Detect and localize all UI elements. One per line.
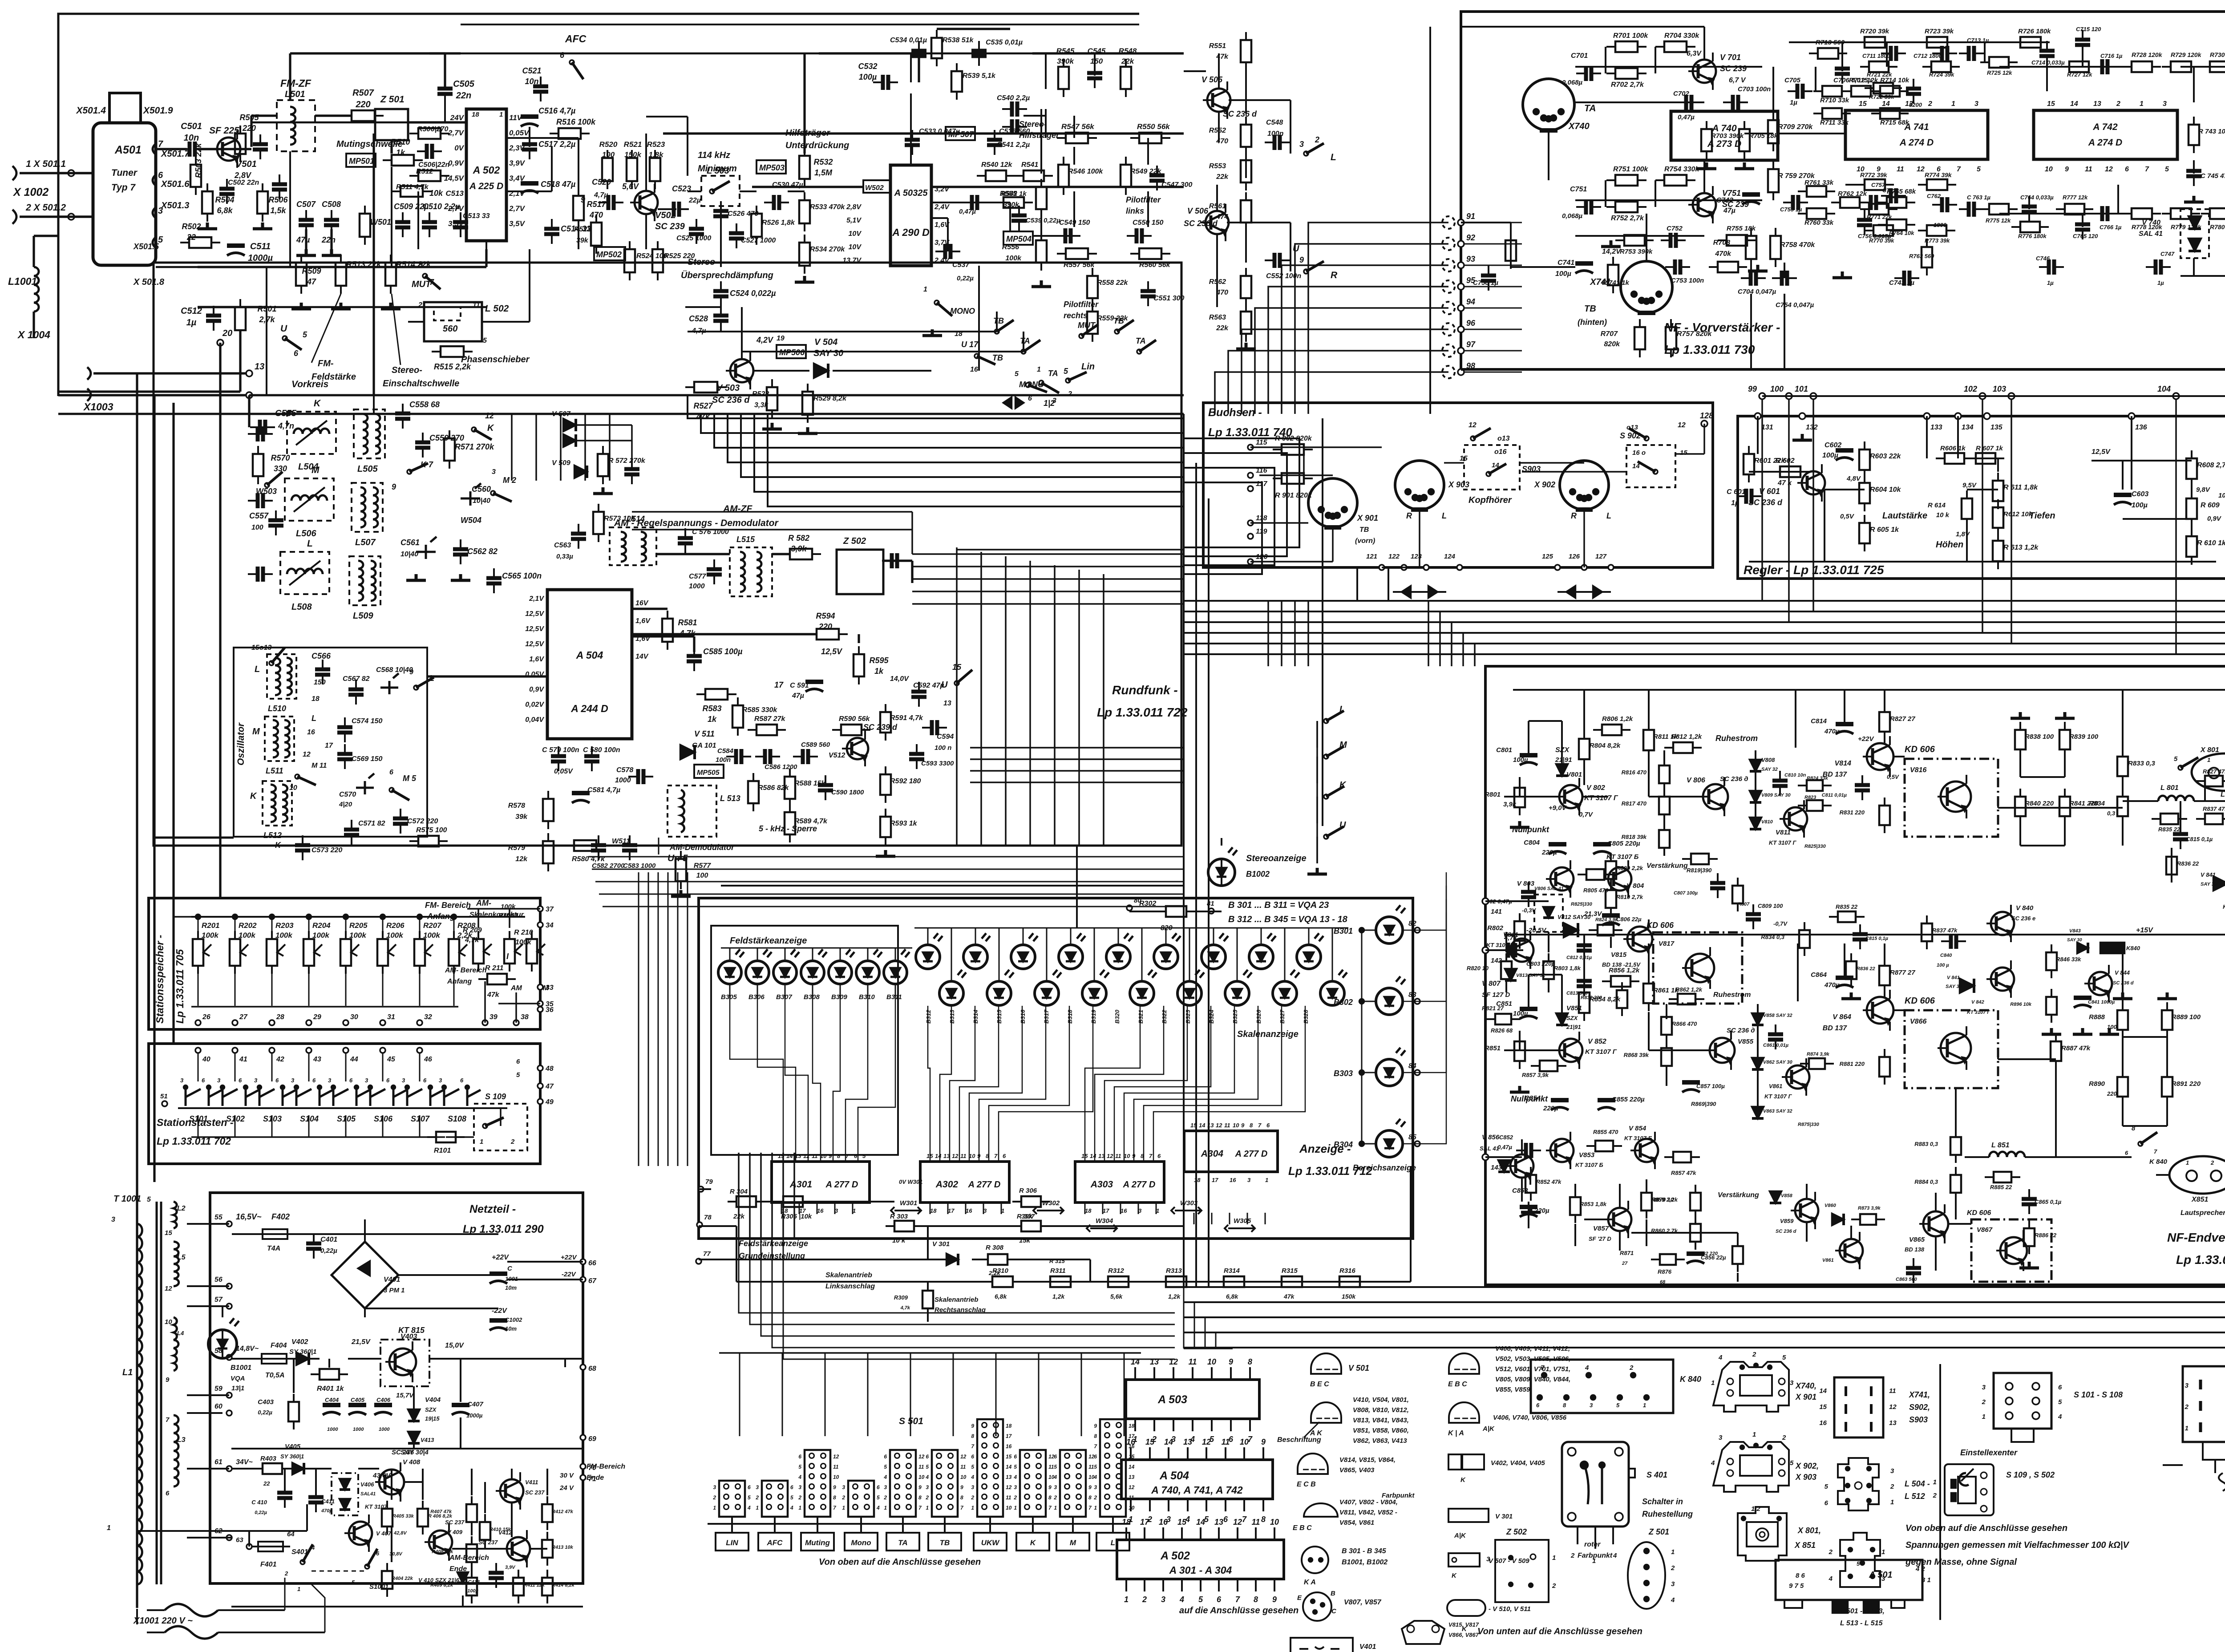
svg-text:3: 3 <box>926 1484 929 1490</box>
DIN connector X741 <box>1621 261 1672 313</box>
svg-text:2: 2 <box>1570 1552 1575 1559</box>
switch TB <box>995 329 999 334</box>
capacitor C815b <box>1853 934 1868 939</box>
svg-text:C765 120: C765 120 <box>2073 233 2098 239</box>
svg-text:1: 1 <box>842 1505 845 1511</box>
wire <box>289 53 291 100</box>
svg-text:C525 1000: C525 1000 <box>676 235 711 242</box>
tuner pin <box>153 237 156 248</box>
terminal 58 <box>227 1355 232 1360</box>
resistor R836b <box>1846 961 1857 979</box>
resistor R775 <box>1989 204 2009 215</box>
svg-text:L1001: L1001 <box>8 275 37 287</box>
svg-text:29: 29 <box>313 1013 321 1021</box>
svg-text:7: 7 <box>1242 1515 1247 1524</box>
fuse F404 <box>262 1354 287 1364</box>
terminal 122 <box>1401 565 1407 570</box>
svg-text:67: 67 <box>588 1277 597 1285</box>
resistor R588 <box>785 777 795 799</box>
svg-text:Farbpunkt: Farbpunkt <box>1382 1492 1415 1499</box>
svg-text:150k: 150k <box>1342 1293 1356 1300</box>
wire <box>883 559 912 562</box>
svg-text:AM-Demodulator: AM-Demodulator <box>669 843 735 852</box>
capacitor C863 <box>1906 1268 1921 1273</box>
svg-text:V855, V859,: V855, V859, <box>1495 1386 1532 1393</box>
resistor R760 <box>1807 208 1826 219</box>
capacitor C815 <box>2173 834 2188 839</box>
svg-text:9: 9 <box>918 1484 922 1490</box>
capacitor C762 <box>1942 197 1947 212</box>
svg-text:11: 11 <box>1048 1464 1054 1470</box>
resistor R524 <box>624 249 635 272</box>
svg-text:SZX: SZX <box>1566 1015 1578 1021</box>
svg-text:0,22µ: 0,22µ <box>255 1510 267 1515</box>
svg-text:118: 118 <box>1256 514 1267 522</box>
svg-text:V857: V857 <box>1593 1225 1609 1232</box>
svg-text:K840: K840 <box>2126 945 2140 952</box>
wire <box>153 395 155 1182</box>
terminal 60 <box>227 1410 232 1416</box>
svg-text:V 740: V 740 <box>2142 219 2160 227</box>
svg-text:1000: 1000 <box>353 1427 364 1432</box>
capacitor C593 <box>909 754 924 759</box>
wire netzteil bottom <box>231 1606 583 1607</box>
svg-text:V 301: V 301 <box>932 1240 950 1248</box>
svg-text:Anfang: Anfang <box>447 978 472 985</box>
resistor R506 <box>257 191 268 214</box>
svg-text:9: 9 <box>833 1484 836 1490</box>
capacitor C411 <box>308 1497 324 1502</box>
svg-text:0,7V: 0,7V <box>1579 811 1594 818</box>
resistor R762 <box>1840 197 1860 208</box>
transistor V853 <box>1550 1139 1574 1162</box>
svg-text:Lautsprecher: Lautsprecher <box>2221 791 2225 798</box>
svg-text:C560: C560 <box>472 485 491 494</box>
ground <box>2055 712 2075 718</box>
inductor L501 winding <box>290 107 295 145</box>
svg-text:1µ: 1µ <box>1790 99 1797 106</box>
terminal 103 <box>2008 393 2015 399</box>
svg-text:1: 1 <box>884 1505 887 1511</box>
svg-text:92: 92 <box>1466 233 1475 242</box>
test point MP503 <box>756 160 786 174</box>
ground <box>291 303 311 309</box>
capacitor C801 <box>1520 753 1537 757</box>
DIN connector X902 <box>1560 461 1609 510</box>
resistor R873 <box>1860 1214 1876 1225</box>
svg-text:11: 11 <box>918 1464 924 1470</box>
resistor R837 <box>2205 814 2223 824</box>
resistor R725 <box>1989 57 2009 68</box>
svg-text:V 803: V 803 <box>1517 880 1535 887</box>
svg-text:W304: W304 <box>1096 1217 1113 1225</box>
capacitor C840b <box>1951 934 1956 949</box>
svg-text:V814, V815, V864,: V814, V815, V864, <box>1339 1456 1396 1464</box>
svg-text:L: L <box>311 714 316 723</box>
wire bus <box>714 414 1184 448</box>
resistor R501 <box>235 307 246 330</box>
svg-text:1: 1 <box>713 1505 716 1511</box>
svg-text:-22V: -22V <box>562 1271 577 1278</box>
wire bus <box>701 414 1184 433</box>
capacitor C526 <box>713 211 728 216</box>
svg-text:1: 1 <box>923 286 927 293</box>
svg-text:SC 236 д: SC 236 д <box>1720 775 1748 783</box>
switch S903 box <box>1464 445 1520 490</box>
svg-text:Ende: Ende <box>449 1565 467 1573</box>
svg-text:Linksanschlag: Linksanschlag <box>825 1283 875 1290</box>
capacitor C757 <box>1871 195 1876 210</box>
resistor R752 <box>1615 202 1638 212</box>
svg-text:SC 237: SC 237 <box>445 1519 465 1526</box>
svg-text:R761 33k: R761 33k <box>1804 179 1834 186</box>
svg-text:4,2V: 4,2V <box>756 336 774 344</box>
svg-text:1,8V: 1,8V <box>1956 530 1970 538</box>
terminal mark <box>1442 302 1455 314</box>
svg-text:R753 390k: R753 390k <box>1620 248 1653 255</box>
svg-text:124: 124 <box>1444 553 1456 560</box>
svg-text:11: 11 <box>1889 1387 1896 1395</box>
svg-text:R896 10k: R896 10k <box>2010 1002 2032 1007</box>
svg-text:3: 3 <box>180 1077 184 1084</box>
resistor R561 <box>1241 200 1251 223</box>
svg-text:R529 8,2k: R529 8,2k <box>813 395 847 402</box>
svg-text:L501: L501 <box>285 89 305 99</box>
svg-text:V865: V865 <box>1909 1236 1925 1243</box>
svg-text:R857 47k: R857 47k <box>1671 1170 1696 1176</box>
wire <box>198 148 218 150</box>
switch osc M <box>389 788 394 792</box>
svg-text:Feldstärkeanzeige: Feldstärkeanzeige <box>739 1239 808 1248</box>
resistor R542 1k <box>1003 197 1024 208</box>
capacitor C805 <box>1593 842 1611 846</box>
wire <box>390 140 392 154</box>
resistor R610 <box>2186 536 2197 557</box>
resistor R563 <box>1241 312 1251 334</box>
svg-text:Ruhestellung: Ruhestellung <box>1642 1510 1693 1518</box>
svg-text:R758 470k: R758 470k <box>1780 241 1815 249</box>
svg-text:2: 2 <box>883 1494 887 1501</box>
svg-text:V402: V402 <box>291 1338 308 1346</box>
resistor R706 <box>1505 240 1516 261</box>
svg-text:Lautstärke: Lautstärke <box>1882 511 1927 521</box>
resistor R521 <box>627 158 637 181</box>
svg-text:4: 4 <box>1711 1459 1715 1467</box>
svg-text:R515 2,2k: R515 2,2k <box>434 362 471 371</box>
wire long bus <box>1184 600 2225 602</box>
svg-text:17: 17 <box>1212 1177 1218 1183</box>
resistor R776 <box>2020 222 2040 232</box>
capacitor C572 <box>393 818 408 824</box>
svg-text:100µ: 100µ <box>2132 502 2148 509</box>
pot 560 box <box>434 307 461 320</box>
resistor R710 <box>1822 86 1842 97</box>
svg-text:104: 104 <box>2157 385 2171 393</box>
svg-text:100k: 100k <box>386 931 404 939</box>
svg-text:L 503: L 503 <box>707 166 729 176</box>
svg-text:R309: R309 <box>894 1294 908 1301</box>
svg-text:1µ: 1µ <box>1731 499 1739 507</box>
svg-text:C806 22µ: C806 22µ <box>1616 916 1642 923</box>
svg-text:R207: R207 <box>423 921 442 930</box>
switch TA <box>1021 349 1026 354</box>
svg-text:V 804: V 804 <box>1626 882 1644 890</box>
capacitor C586 <box>765 749 770 764</box>
svg-text:R721 22k: R721 22k <box>1867 71 1892 78</box>
svg-text:6: 6 <box>1003 1153 1006 1159</box>
svg-text:TB: TB <box>1113 316 1124 325</box>
resistor R703 <box>1701 129 1712 151</box>
svg-text:1: 1 <box>1752 1431 1756 1438</box>
capacitor C56x <box>624 469 639 474</box>
wire <box>444 53 446 87</box>
svg-text:11: 11 <box>812 1153 818 1159</box>
svg-text:3 PM 1: 3 PM 1 <box>384 1287 405 1294</box>
svg-text:2: 2 <box>284 1570 288 1577</box>
svg-text:R870 10: R870 10 <box>1652 1196 1674 1203</box>
svg-text:5: 5 <box>303 330 307 339</box>
svg-text:FM- Bereich: FM- Bereich <box>425 901 471 910</box>
svg-text:R723 39k: R723 39k <box>1925 28 1954 35</box>
svg-text:C516 4,7µ: C516 4,7µ <box>538 106 576 115</box>
svg-text:L 851: L 851 <box>1991 1142 2010 1149</box>
terminal 67 <box>580 1277 586 1282</box>
svg-text:R729 120k: R729 120k <box>2171 51 2202 58</box>
switch S107 <box>407 1088 444 1106</box>
svg-text:100n: 100n <box>716 756 731 764</box>
svg-text:A 225 D: A 225 D <box>469 181 503 191</box>
wire <box>198 917 199 939</box>
resistor R765 <box>1887 197 1906 208</box>
svg-text:C577: C577 <box>689 573 706 580</box>
capacitor C573 <box>295 845 310 850</box>
svg-text:+22V: +22V <box>561 1254 577 1261</box>
svg-text:1: 1 <box>1037 366 1041 373</box>
svg-text:1: 1 <box>480 1138 483 1146</box>
svg-text:96: 96 <box>1466 319 1476 328</box>
svg-text:2: 2 <box>1782 1434 1786 1441</box>
ground <box>922 329 942 336</box>
resistor R862 <box>1678 994 1695 1004</box>
svg-text:1: 1 <box>1982 1413 1986 1421</box>
svg-text:V861: V861 <box>1822 1258 1834 1263</box>
capacitor C535 <box>971 51 987 56</box>
wire netzteil mid <box>231 1448 583 1450</box>
svg-text:R312: R312 <box>1108 1267 1125 1275</box>
capacitor C413 <box>489 1573 504 1578</box>
svg-text:12: 12 <box>1678 421 1686 429</box>
phase shifter L502 box <box>424 302 482 341</box>
svg-text:3: 3 <box>1590 1402 1593 1409</box>
svg-text:34V~: 34V~ <box>236 1458 253 1466</box>
svg-text:2: 2 <box>925 1494 929 1501</box>
svg-text:95: 95 <box>1466 276 1476 285</box>
svg-text:5,6k: 5,6k <box>1110 1293 1123 1300</box>
svg-text:R510: R510 <box>391 138 410 146</box>
svg-text:B305: B305 <box>721 993 737 1001</box>
svg-text:R201: R201 <box>202 921 220 930</box>
DIN connector X740 <box>1523 79 1574 130</box>
capacitor C592 <box>911 692 926 697</box>
resistor R728 <box>2132 61 2152 72</box>
inductor L510 <box>275 658 280 695</box>
svg-text:4,7k: 4,7k <box>900 1305 910 1311</box>
svg-text:R: R <box>1331 270 1338 280</box>
svg-text:C811 0,01µ: C811 0,01µ <box>1822 793 1847 798</box>
svg-text:101: 101 <box>1795 385 1808 393</box>
svg-text:100 n: 100 n <box>934 744 951 752</box>
svg-text:1k: 1k <box>708 715 717 724</box>
switch S902a <box>1644 436 1649 441</box>
svg-text:R522: R522 <box>574 226 591 233</box>
svg-text:C590 1800: C590 1800 <box>831 789 864 796</box>
diode V806b SAL41 <box>1543 907 1554 918</box>
svg-text:V866: V866 <box>1910 1018 1926 1025</box>
svg-text:L 501 - L 503,: L 501 - L 503, <box>1840 1607 1885 1615</box>
resistor R826 <box>1495 1014 1511 1024</box>
svg-text:R806 1,2k: R806 1,2k <box>1602 715 1633 723</box>
svg-text:47k: 47k <box>487 991 500 999</box>
svg-text:R523: R523 <box>647 140 665 149</box>
terminal 31 <box>380 1020 385 1025</box>
svg-text:3: 3 <box>217 1077 221 1084</box>
svg-text:X 902: X 902 <box>1534 480 1555 489</box>
svg-text:6: 6 <box>1217 1595 1222 1604</box>
svg-text:V808: V808 <box>1761 757 1775 763</box>
svg-text:R883 0,3: R883 0,3 <box>1914 1141 1938 1147</box>
capacitor C581 <box>572 791 590 795</box>
svg-text:C702: C702 <box>1673 90 1690 97</box>
capacitor C506/22n <box>427 144 432 159</box>
svg-text:C567 82: C567 82 <box>343 675 370 683</box>
svg-text:R1001: R1001 <box>498 912 518 919</box>
svg-text:Oszillator: Oszillator <box>236 722 246 765</box>
ground <box>1735 162 1754 169</box>
svg-text:11: 11 <box>1897 166 1904 173</box>
svg-text:131: 131 <box>1761 424 1773 431</box>
resistor R211 <box>487 974 507 984</box>
svg-text:C534 0,01µ: C534 0,01µ <box>890 36 927 44</box>
svg-text:R835 22: R835 22 <box>2158 826 2180 833</box>
svg-text:6: 6 <box>1014 1454 1017 1460</box>
svg-text:C1002: C1002 <box>505 1316 522 1323</box>
diode V406b <box>340 1499 350 1510</box>
coil L507 <box>352 483 383 532</box>
svg-text:R 611 1,8k: R 611 1,8k <box>2003 484 2038 491</box>
svg-text:1,5M: 1,5M <box>814 168 833 177</box>
svg-text:2: 2 <box>510 1138 515 1146</box>
svg-text:C 410: C 410 <box>251 1499 267 1506</box>
svg-text:C758 1µ: C758 1µ <box>1473 279 1498 287</box>
switch S903a <box>1471 436 1475 441</box>
svg-text:SZX: SZX <box>425 1406 437 1413</box>
capacitor C802 <box>1521 892 1536 897</box>
board Netzteil <box>210 1193 583 1583</box>
box W502 <box>863 180 890 193</box>
resistor R581 <box>662 619 673 642</box>
test point MP506 <box>777 345 806 358</box>
svg-text:V501: V501 <box>236 159 257 169</box>
svg-text:L: L <box>307 539 313 549</box>
wire <box>656 553 730 555</box>
potentiometer R206 <box>377 939 388 966</box>
resistor R882 <box>1732 1246 1743 1264</box>
svg-text:56: 56 <box>214 1276 222 1284</box>
svg-text:X740,: X740, <box>1795 1381 1816 1390</box>
svg-text:A 244 D: A 244 D <box>570 703 608 714</box>
svg-text:S108: S108 <box>448 1114 466 1123</box>
inductor L505 <box>363 414 368 454</box>
wire <box>375 114 375 117</box>
terminal 141 <box>1482 898 1489 904</box>
svg-text:B317: B317 <box>1043 1009 1050 1024</box>
ground <box>1748 265 1768 271</box>
capacitor C854 <box>1551 1098 1569 1102</box>
zener V801 <box>1556 764 1568 776</box>
svg-text:C505: C505 <box>453 79 475 89</box>
svg-text:C852: C852 <box>1499 1134 1513 1141</box>
svg-text:C855 220µ: C855 220µ <box>1612 1096 1645 1103</box>
svg-text:R836 22: R836 22 <box>2177 860 2199 867</box>
potentiometer R1001 <box>526 939 537 964</box>
svg-text:22n: 22n <box>321 235 336 244</box>
svg-text:C755 1µ: C755 1µ <box>1780 206 1802 213</box>
resistor R594 <box>817 629 839 640</box>
svg-text:3: 3 <box>439 1077 442 1084</box>
svg-text:42: 42 <box>276 1056 284 1063</box>
svg-text:4: 4 <box>2058 1413 2062 1421</box>
resistor R832 <box>1617 990 1627 1008</box>
resistor R860 <box>1690 1224 1701 1242</box>
resistor R701 <box>1615 41 1638 52</box>
svg-text:3,9k: 3,9k <box>791 544 807 553</box>
svg-text:5: 5 <box>2165 166 2169 173</box>
svg-text:W305: W305 <box>1234 1217 1251 1225</box>
svg-text:C527 1000: C527 1000 <box>741 237 776 244</box>
wire <box>198 1053 199 1081</box>
svg-text:4: 4 <box>311 1544 315 1551</box>
resistor R885 <box>1994 1172 2011 1182</box>
svg-text:R 607 1k: R 607 1k <box>1976 445 2003 452</box>
svg-text:SC 236 d: SC 236 d <box>1776 1229 1796 1234</box>
svg-text:Z 502: Z 502 <box>843 536 866 546</box>
svg-text:V407, V802 - V804,: V407, V802 - V804, <box>1339 1498 1398 1506</box>
svg-text:K: K <box>314 398 321 409</box>
resistor R810 <box>1606 890 1616 908</box>
inductor L515a <box>740 552 745 592</box>
resistor R755 <box>1727 235 1747 246</box>
wire <box>308 917 310 939</box>
svg-text:R583: R583 <box>702 704 721 713</box>
svg-text:22k: 22k <box>1121 57 1135 65</box>
terminal 27 <box>232 1020 238 1025</box>
resistor R834b <box>1799 930 1810 948</box>
capacitor C751 <box>1586 199 1591 215</box>
svg-text:V406: V406 <box>360 1481 374 1488</box>
svg-text:C814: C814 <box>1811 717 1827 725</box>
svg-text:A 504: A 504 <box>1159 1470 1189 1482</box>
resistor R553 <box>1241 160 1251 182</box>
svg-text:+22V: +22V <box>1858 735 1874 743</box>
svg-text:V806 SAL 41: V806 SAL 41 <box>1534 886 1564 891</box>
svg-text:K: K <box>1452 1572 1457 1579</box>
svg-text:X741,: X741, <box>1909 1390 1930 1399</box>
svg-text:C743 1µ: C743 1µ <box>1889 279 1914 287</box>
svg-text:E: E <box>1297 1594 1302 1602</box>
wire <box>632 607 667 610</box>
wire <box>419 966 421 1006</box>
capacitor C505 <box>437 89 453 94</box>
